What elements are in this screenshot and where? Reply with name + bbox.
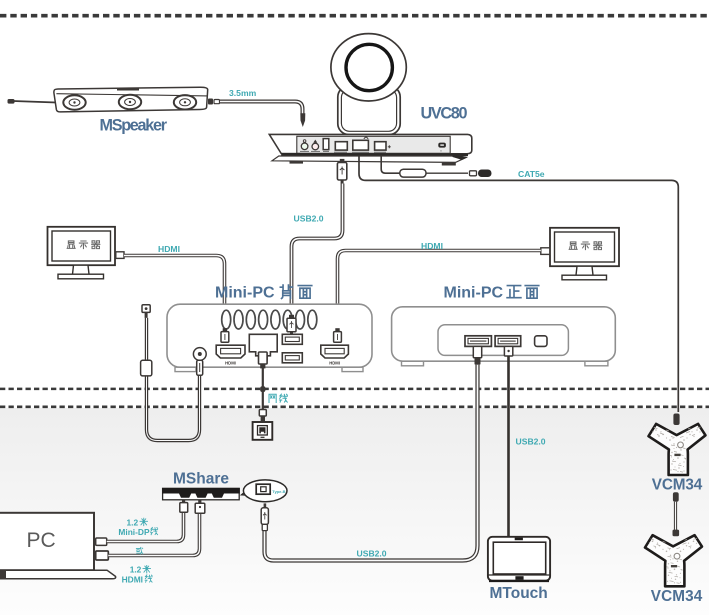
svg-text:UVC80: UVC80 <box>421 105 468 123</box>
svg-text:VCM34: VCM34 <box>652 477 703 494</box>
front USB port 2 <box>495 336 521 347</box>
hub port audio-in jack <box>312 140 319 150</box>
wall ethernet socket <box>253 422 273 440</box>
label left 显示器 <box>67 241 100 249</box>
front power button <box>535 336 547 347</box>
connector ethernet wall plug <box>259 410 266 422</box>
audio U-cable top connector <box>142 305 150 318</box>
hub security slot <box>438 143 446 152</box>
power adapter <box>400 169 426 177</box>
connector HDMI plug 2 into back <box>334 328 342 342</box>
connector PC HDMI <box>96 551 109 560</box>
cable power cord <box>381 156 400 173</box>
label or <box>136 547 143 554</box>
connector power plug pair <box>470 170 492 178</box>
device Mini-PC front box <box>392 307 616 366</box>
device PC laptop <box>0 513 116 579</box>
connector USB-B plug under balloon <box>261 503 268 530</box>
device UVC80 camera body <box>338 86 400 135</box>
connector audio plug into round port <box>197 360 203 375</box>
hub port slim slot <box>323 139 329 150</box>
svg-text:USB2.0: USB2.0 <box>516 437 546 447</box>
connector VCM34-2 top plug <box>673 530 680 537</box>
svg-text:MShare: MShare <box>173 471 229 488</box>
connector front USB plug 2 <box>504 346 512 356</box>
svg-text:HDMI: HDMI <box>225 361 236 366</box>
svg-text:Type-B: Type-B <box>272 489 285 494</box>
svg-text:PC: PC <box>27 529 56 552</box>
cable mini-DP PC to MShare <box>107 512 184 542</box>
power cord to plug <box>426 172 468 174</box>
cable HDMI PC to MShare <box>108 513 199 556</box>
monitor left display <box>48 227 116 279</box>
svg-text:USB2.0: USB2.0 <box>357 549 387 559</box>
UVC80 lens ring <box>346 44 392 90</box>
svg-text:MSpeaker: MSpeaker <box>100 117 168 135</box>
connector left display HDMI <box>116 252 124 259</box>
device MTouch <box>488 537 550 581</box>
cable USB2.0 hub to Mini-PC back <box>292 184 343 318</box>
hub port line-out square <box>335 142 347 150</box>
connector MSpeaker right plug <box>208 99 220 105</box>
svg-text:HDMI: HDMI <box>329 361 340 366</box>
connector USB plug into back vent <box>287 315 296 335</box>
UVC80 camera head ellipse <box>331 34 406 101</box>
cable audio U-loop <box>147 318 200 441</box>
middle dashed line 2 <box>0 405 709 408</box>
svg-text:VCM34: VCM34 <box>651 588 703 605</box>
Mini-PC back RJ45 port <box>249 334 277 359</box>
Mini-PC back USB ports <box>282 334 302 363</box>
cable ethernet to wall <box>262 368 264 411</box>
device MSpeaker body <box>54 87 208 112</box>
svg-text:Mini-PC: Mini-PC <box>444 285 504 302</box>
microphone VCM34 #2 <box>645 535 702 586</box>
cable HDMI left display to Mini-PC back <box>124 256 225 331</box>
Mini-PC back vent holes <box>222 310 317 329</box>
monitor right display <box>550 228 619 280</box>
Mini-PC back HDMI port 2 <box>321 345 349 365</box>
connector MShare mini-DP plug <box>180 500 188 512</box>
cable front USB1 long to MShare <box>265 365 478 561</box>
MSpeaker speaker cones <box>63 95 196 110</box>
top dashed boundary line <box>0 14 709 18</box>
svg-text:CAT5e: CAT5e <box>518 169 545 179</box>
label 1.2m mini-DP <box>118 518 157 538</box>
label right 显示器 <box>569 242 602 250</box>
connector HDMI plug 1 into back <box>221 328 229 342</box>
svg-text:MTouch: MTouch <box>490 585 548 602</box>
connector VCM34-1 top plug <box>673 414 679 426</box>
microphone VCM34 #1 <box>649 424 706 475</box>
connector front USB plug 1 <box>473 346 481 364</box>
cable VCM34 daisy chain <box>674 502 677 531</box>
background lower gray zone <box>0 408 709 615</box>
label 网线 <box>269 394 287 402</box>
svg-text:3.5mm: 3.5mm <box>229 88 257 98</box>
svg-text:USB2.0: USB2.0 <box>294 214 324 224</box>
Mini-PC back audio round port <box>193 348 206 361</box>
connector USB-B plug under hub <box>337 159 346 184</box>
svg-text:Mini-PC: Mini-PC <box>215 285 275 302</box>
hub port usb square <box>375 142 391 150</box>
cable CAT5e hub to VCM34 <box>359 156 678 412</box>
connector PC mini-DP <box>96 538 107 545</box>
middle dashed line 1 <box>0 388 709 391</box>
cable HDMI right display to Mini-PC back <box>338 251 541 331</box>
cable 3.5mm audio <box>220 102 303 114</box>
connector VCM34-1 bottom plug <box>673 492 679 501</box>
hub tiny port labels <box>300 150 386 153</box>
svg-text:HDMI: HDMI <box>158 244 180 254</box>
svg-text:HDMI: HDMI <box>122 574 143 584</box>
Mini-PC front panel <box>438 325 568 356</box>
Mini-PC back HDMI port 1 <box>216 345 245 365</box>
svg-text:Mini-DP: Mini-DP <box>118 527 150 537</box>
svg-text:1.2: 1.2 <box>127 518 139 528</box>
svg-text:1.2: 1.2 <box>130 565 142 575</box>
wire MSpeaker left cord <box>8 99 57 104</box>
cable front USB2 to MTouch <box>507 356 510 538</box>
front USB port 1 <box>465 336 491 347</box>
ferrite bead on ethernet <box>260 386 265 392</box>
connector RJ45 plug under back <box>259 352 268 368</box>
device Mini-PC back box <box>167 304 372 371</box>
connector right display HDMI <box>541 248 550 255</box>
connector 3.5mm plug into hub <box>300 113 305 127</box>
hub port audio-out jack <box>301 140 308 150</box>
label 1.2m HDMI <box>122 565 153 585</box>
balloon magnifier Type-B <box>242 480 287 502</box>
ferrite adapter on audio cable <box>141 360 152 376</box>
connector MShare HDMI plug <box>195 500 205 513</box>
device MShare bar <box>162 488 240 500</box>
hub port camera rect <box>353 137 369 150</box>
device UVC80 base hub bar <box>269 134 472 165</box>
svg-text:HDMI: HDMI <box>421 241 443 251</box>
